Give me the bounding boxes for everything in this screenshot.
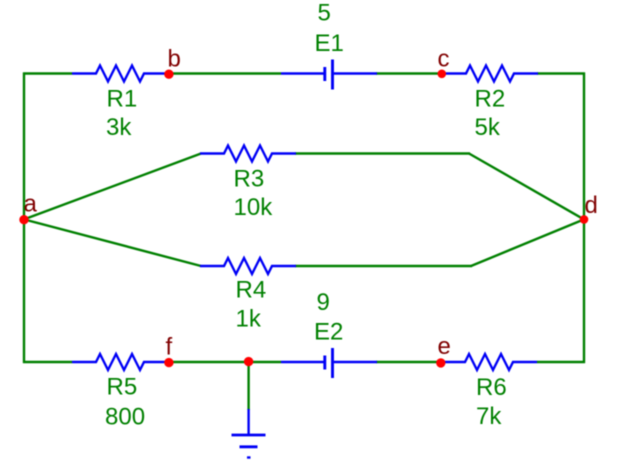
label node b	[168, 46, 181, 73]
label R2 value 5k	[475, 114, 501, 141]
node a	[19, 215, 28, 224]
svg-text:7k: 7k	[476, 403, 502, 430]
wire right vertical d-side	[583, 73, 585, 364]
label node d	[585, 192, 598, 219]
svg-text:R2: R2	[475, 86, 506, 113]
svg-text:800: 800	[105, 404, 145, 431]
resistor R5	[72, 354, 168, 370]
resistor R2	[442, 66, 538, 82]
node d	[580, 215, 589, 224]
battery E1	[281, 60, 377, 90]
label R5 name	[107, 374, 138, 401]
svg-text:d: d	[585, 192, 598, 219]
wire bend to d lower	[471, 219, 584, 266]
svg-text:E2: E2	[314, 319, 343, 346]
wire top E1 to c	[376, 72, 443, 74]
label R1 name	[107, 86, 138, 113]
label E2 name	[314, 319, 343, 346]
label R1 value 3k	[106, 114, 132, 141]
wire R3 to bend right	[295, 152, 470, 154]
label R2 name	[475, 86, 506, 113]
svg-text:5: 5	[318, 0, 331, 27]
node e	[436, 358, 445, 367]
label node c	[438, 46, 450, 73]
svg-text:R3: R3	[234, 166, 265, 193]
svg-text:E1: E1	[315, 30, 344, 57]
svg-text:9: 9	[317, 289, 330, 316]
svg-text:R1: R1	[107, 86, 138, 113]
node b	[164, 70, 173, 79]
svg-text:b: b	[168, 46, 181, 73]
wire ground stem	[247, 362, 249, 410]
wire top left segment	[23, 72, 72, 74]
wire bottom left segment	[23, 361, 72, 363]
node f	[164, 358, 173, 367]
label R3 value 10k	[234, 194, 274, 221]
svg-text:5k: 5k	[475, 114, 501, 141]
svg-text:R5: R5	[107, 374, 138, 401]
wire bottom E2 to e	[376, 361, 442, 363]
wire bottom right segment	[537, 361, 585, 363]
junction node at ground	[244, 357, 253, 366]
wire bottom f to E2	[168, 361, 281, 363]
svg-text:R4: R4	[236, 277, 267, 304]
svg-text:e: e	[438, 333, 451, 360]
resistor R1	[72, 66, 168, 82]
wire diagonal a to R4	[24, 219, 201, 266]
svg-text:a: a	[24, 191, 38, 218]
wire left vertical a-side	[23, 73, 25, 364]
label E1 name	[315, 30, 344, 57]
wire R4 to bend right	[295, 265, 472, 267]
label R6 value 7k	[476, 403, 502, 430]
label R4 name	[236, 277, 267, 304]
label R3 name	[234, 166, 265, 193]
label node f	[166, 334, 173, 361]
label R5 value 800	[105, 404, 145, 431]
node c	[438, 70, 447, 79]
svg-text:1k: 1k	[236, 306, 262, 333]
svg-text:3k: 3k	[106, 114, 132, 141]
svg-text:R6: R6	[476, 374, 507, 401]
label E1 value 5	[318, 0, 331, 27]
label R4 value 1k	[236, 306, 262, 333]
svg-text:f: f	[166, 334, 173, 361]
resistor R4	[200, 258, 296, 274]
resistor R3	[200, 146, 296, 162]
wire top right segment	[537, 72, 585, 74]
svg-text:10k: 10k	[234, 194, 274, 221]
wire diagonal a to R3	[24, 154, 201, 220]
label node e	[438, 333, 451, 360]
svg-text:c: c	[438, 46, 450, 73]
resistor R6	[441, 354, 537, 370]
battery E2	[281, 348, 377, 378]
ground	[232, 409, 266, 458]
wire top b to E1	[168, 72, 281, 74]
label node a	[24, 191, 38, 218]
label R6 name	[476, 374, 507, 401]
wire bend to d upper	[469, 154, 584, 220]
label E2 value 9	[317, 289, 330, 316]
